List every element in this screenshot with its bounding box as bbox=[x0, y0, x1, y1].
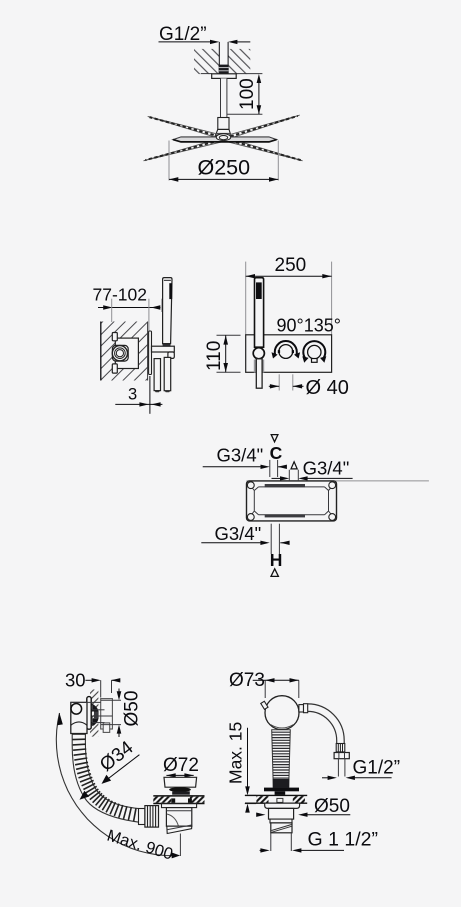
svg-text:G 1 1/2”: G 1 1/2” bbox=[308, 829, 378, 851]
ceiling line bbox=[201, 73, 263, 75]
overflow body bbox=[71, 702, 101, 733]
overflow face plate bbox=[87, 697, 91, 730]
dim port C bbox=[203, 460, 287, 477]
label G112 bbox=[308, 829, 378, 851]
svg-text:100: 100 bbox=[237, 78, 258, 110]
dim port H bbox=[201, 524, 289, 554]
mixer plate front bbox=[246, 335, 332, 373]
label 30 bbox=[65, 670, 86, 691]
pipe nut dark bbox=[219, 65, 229, 75]
drain plug cap bbox=[164, 777, 197, 794]
svg-text:G3/4": G3/4" bbox=[303, 458, 350, 479]
hose nut at drain bbox=[139, 806, 159, 828]
dim 250 bbox=[246, 262, 332, 335]
svg-text:H: H bbox=[270, 550, 283, 570]
svg-text:3: 3 bbox=[128, 386, 137, 404]
cartridge rounded square bbox=[112, 345, 128, 361]
label G1/2 top bbox=[159, 24, 207, 45]
handshower side view bbox=[163, 278, 173, 347]
ceiling hatch bbox=[194, 49, 250, 74]
label D73 bbox=[229, 670, 265, 691]
dim D40 bbox=[269, 374, 349, 399]
label G3/4 bottom bbox=[215, 523, 262, 544]
dim port A bbox=[272, 470, 353, 481]
dim G112 bbox=[260, 848, 344, 852]
handshower front view bbox=[255, 278, 264, 348]
handshower holder ring bbox=[253, 348, 264, 359]
dim D73 bbox=[253, 678, 299, 698]
dim D50 right bbox=[256, 813, 350, 817]
shower deck hatch bbox=[245, 795, 307, 803]
dim D72 bbox=[166, 773, 193, 777]
corrugated hose bbox=[72, 734, 141, 822]
label D72 bbox=[163, 755, 199, 776]
svg-text:Ø72: Ø72 bbox=[163, 755, 199, 776]
corrugated riser bbox=[272, 730, 291, 788]
dim 3 bbox=[115, 376, 162, 414]
shower body under deck bbox=[269, 808, 294, 822]
svg-text:Ø250: Ø250 bbox=[198, 156, 251, 180]
svg-text:Ø 40: Ø 40 bbox=[306, 377, 349, 399]
dim Max15 bbox=[226, 722, 257, 813]
hose ribs bbox=[72, 734, 140, 822]
riser black flange bbox=[264, 788, 299, 795]
dim 100 bbox=[227, 74, 263, 114]
symbol triangle up bbox=[271, 569, 278, 577]
overflow mechanism dark bbox=[91, 704, 112, 727]
svg-text:77-102: 77-102 bbox=[93, 285, 148, 305]
dim 110 bbox=[204, 335, 241, 372]
label C bbox=[270, 443, 283, 463]
head center hub bbox=[216, 134, 230, 141]
svg-text:30: 30 bbox=[65, 670, 86, 691]
label G3/4 top-left bbox=[217, 444, 264, 465]
svg-text:250: 250 bbox=[275, 255, 307, 276]
head connector bbox=[218, 118, 229, 130]
svg-text:G1/2”: G1/2” bbox=[353, 758, 401, 779]
dim max900 arc bbox=[56, 713, 180, 864]
svg-text:110: 110 bbox=[204, 341, 225, 371]
valve bottom stub bbox=[112, 364, 117, 373]
head disc bbox=[173, 137, 277, 142]
label H bbox=[270, 550, 283, 570]
drain body bbox=[166, 808, 191, 827]
hanging bar 1 (lever) bbox=[154, 359, 160, 393]
drain tail extension line bbox=[179, 834, 181, 857]
shower escutcheon under deck bbox=[265, 803, 300, 808]
overflow pipe behind wall bbox=[101, 699, 113, 733]
dim leader G1/2 left bbox=[159, 40, 220, 44]
shower sphere body bbox=[265, 696, 299, 730]
dim D250 bbox=[169, 141, 278, 182]
thread section bbox=[271, 823, 292, 833]
ball joint cone bbox=[215, 129, 231, 136]
head perspective rays bbox=[144, 115, 303, 161]
hex nut G12 bbox=[334, 753, 349, 759]
svg-text:C: C bbox=[270, 443, 283, 463]
body top line extended right bbox=[247, 480, 429, 482]
dim 77-102 bbox=[98, 299, 162, 332]
wall hatch section bbox=[101, 322, 148, 381]
ceiling flange bbox=[212, 74, 237, 79]
G12 pipe bbox=[338, 759, 345, 777]
valve rough body bbox=[247, 481, 337, 521]
drain underdeck flange bbox=[162, 804, 197, 808]
svg-text:G3/4": G3/4" bbox=[217, 444, 264, 465]
cartridge circles bbox=[112, 346, 127, 361]
label D50 right bbox=[314, 796, 350, 817]
svg-text:G3/4": G3/4" bbox=[215, 523, 262, 544]
label G12 bbox=[353, 758, 401, 779]
dim 30 bbox=[85, 678, 120, 697]
dim leader G1/2 right bbox=[228, 40, 250, 44]
svg-text:Ø50: Ø50 bbox=[314, 796, 350, 817]
sphere right connector bbox=[299, 704, 308, 713]
sphere left nub bbox=[261, 701, 268, 709]
knob left bbox=[272, 341, 301, 358]
symbol triangle up small bbox=[291, 462, 297, 469]
symbol triangle down bbox=[271, 435, 278, 442]
overflow wall hatch bbox=[90, 690, 98, 737]
valve top stub bbox=[112, 333, 117, 341]
label 77-102 bbox=[93, 285, 148, 305]
tail extension lines bbox=[271, 833, 292, 851]
hanging bar 2 (hose) bbox=[164, 357, 171, 392]
svg-text:90°135°: 90°135° bbox=[277, 316, 341, 336]
escutcheon plate edge bbox=[149, 331, 152, 375]
label G3/4 top-right bbox=[303, 458, 350, 479]
overflow knob bbox=[71, 704, 82, 715]
dim D50 overflow bbox=[101, 689, 143, 738]
flexible hose arc bbox=[308, 704, 345, 744]
label 90 135 bbox=[277, 316, 341, 336]
handshower lower grip bbox=[254, 359, 264, 388]
supply pipe nipple bbox=[219, 42, 228, 74]
tub deck hatch bbox=[153, 796, 204, 804]
valve body in wall bbox=[115, 338, 138, 368]
handle lever side bbox=[152, 343, 175, 359]
dim D34 bbox=[80, 737, 140, 800]
svg-text:Ø50: Ø50 bbox=[122, 691, 143, 727]
dim G12 pipe bbox=[322, 776, 392, 780]
label 250 bbox=[275, 255, 307, 276]
knob right bbox=[302, 341, 326, 363]
drain tail angled bbox=[167, 825, 192, 834]
corner screw circles bbox=[247, 482, 335, 521]
shower arm pipe bbox=[221, 78, 227, 117]
svg-text:Max. 15: Max. 15 bbox=[226, 722, 246, 784]
hose end collar bbox=[336, 744, 345, 752]
